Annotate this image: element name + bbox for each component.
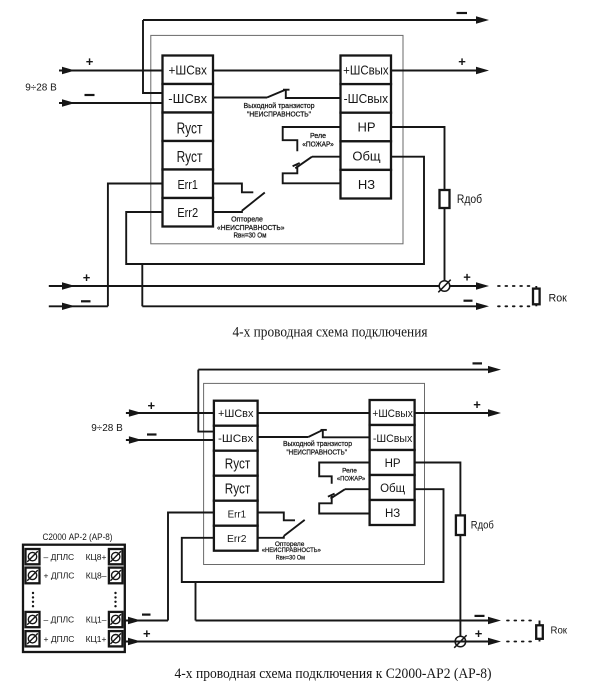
arrowhead + power input 2 <box>129 409 142 416</box>
dotted continuation minus bus <box>498 305 531 307</box>
svg-text:НЗ: НЗ <box>385 508 400 520</box>
label minus КЦ1- <box>142 613 151 615</box>
arrowhead minus lower bus <box>476 303 489 310</box>
wire: + power input <box>59 70 163 72</box>
svg-text:Rвн=30 Ом: Rвн=30 Ом <box>234 232 267 239</box>
svg-text:КЦ1+: КЦ1+ <box>86 634 107 644</box>
arrowhead minus output top <box>476 16 489 23</box>
АР2 terminal КЦ1- row3 <box>86 612 123 627</box>
relay ПОЖАР 2: НР contact path <box>319 463 369 484</box>
svg-text:Реле: Реле <box>342 468 357 475</box>
АР2 terminal КЦ8- row2 <box>86 568 123 584</box>
label minus output right 2 <box>475 615 485 617</box>
device inner boundary (thin rectangle) <box>151 35 403 243</box>
svg-text:+: + <box>473 397 481 412</box>
wire: minus lower bus <box>142 305 482 307</box>
opto relay 2: Err2 wire <box>258 536 284 538</box>
АР2 terminal -ДПЛС row1 <box>26 549 75 564</box>
transistor switch tick <box>283 89 290 91</box>
svg-text:– ДПЛС: – ДПЛС <box>44 615 75 625</box>
svg-text:«ПОЖАР»: «ПОЖАР» <box>302 142 334 149</box>
svg-text:Rуст: Rуст <box>177 120 203 137</box>
svg-text:Rдоб: Rдоб <box>457 194 483 206</box>
svg-text:+: + <box>83 270 91 285</box>
АР2 terminal +ДПЛС row4 <box>26 631 75 646</box>
svg-text:Выходной транзистор: Выходной транзистор <box>283 440 352 448</box>
svg-text:+ ДПЛС: + ДПЛС <box>44 571 75 581</box>
svg-text:4-х проводная схема подключени: 4-х проводная схема подключения к С2000-… <box>175 666 492 682</box>
arrowhead + lower bus right <box>476 282 489 289</box>
wire: minus output top line 2 <box>198 369 494 371</box>
resistor Rок 2 <box>539 621 541 626</box>
svg-text:-ШСвх: -ШСвх <box>168 91 207 106</box>
relay ПОЖАР: blade from Общ <box>295 157 312 169</box>
relay ПОЖАР 2: НЗ contact path <box>319 496 369 514</box>
svg-text:+: + <box>475 626 483 641</box>
arrowhead + power input <box>62 67 75 74</box>
wire: Err1 left to minus input riser <box>108 184 163 307</box>
transistor switch НЕИСПРАВНОСТЬ: left wire <box>213 97 267 99</box>
relay ПОЖАР: blade tick <box>293 163 300 166</box>
svg-text:Реле: Реле <box>310 133 326 140</box>
relay ПОЖАР: НЗ contact path <box>283 165 341 183</box>
wire: + power input 2 <box>126 412 214 414</box>
svg-text:Rуст: Rуст <box>225 481 251 497</box>
dotted continuation + 2 <box>507 641 534 643</box>
transistor switch 2 blade <box>308 430 322 437</box>
opto relay 2: blade <box>284 520 305 536</box>
opto relay 2: Err1 fixed contact path <box>258 513 295 521</box>
wire: Err2 to Общ link 2 <box>182 489 444 582</box>
wire: minus lower-left input <box>49 305 108 307</box>
svg-text:-ШСвых: -ШСвых <box>344 92 389 106</box>
svg-text:Rок: Rок <box>551 625 568 637</box>
svg-text:+: + <box>463 270 471 285</box>
resistor Rдоб <box>440 190 450 208</box>
АР2 terminal КЦ1+ row4 <box>86 631 123 646</box>
svg-text:НЗ: НЗ <box>358 177 375 192</box>
svg-text:КЦ8–: КЦ8– <box>86 571 107 581</box>
transistor switch 2 right drop and wire <box>323 430 370 437</box>
wire: +ШСвых output right <box>391 70 482 72</box>
svg-text:+: + <box>148 398 156 413</box>
svg-text:НР: НР <box>357 120 375 135</box>
svg-text:-ШСвх: -ШСвх <box>218 433 254 445</box>
relay ПОЖАР 2: Общ wire <box>345 488 370 490</box>
svg-text:КЦ1–: КЦ1– <box>86 615 107 625</box>
wire: minus riser from -ШСвх to top line <box>143 20 163 93</box>
svg-text:Err1: Err1 <box>177 177 198 192</box>
svg-text:"НЕИСПРАВНОСТЬ": "НЕИСПРАВНОСТЬ" <box>286 449 347 456</box>
svg-text:Err2: Err2 <box>177 205 198 220</box>
block АР2 outline <box>23 545 125 652</box>
opto relay: blade <box>242 193 265 211</box>
terminal block: right (output) <box>341 56 392 199</box>
arrowhead minus power input <box>62 99 75 106</box>
arrowhead minus lower-left <box>62 303 75 310</box>
svg-text:Rуст: Rуст <box>225 456 251 472</box>
wire: minus output line 2 <box>196 620 495 622</box>
junction circle-slash on + bus <box>439 281 450 292</box>
wire: minus power input 2 <box>126 439 214 441</box>
opto relay: Err2 wire <box>213 211 242 212</box>
terminal block: left 2 (input) <box>214 401 258 551</box>
wire: minus power input <box>59 102 163 104</box>
relay ПОЖАР 2: blade tick <box>328 494 335 497</box>
wire: + lower bus <box>49 285 482 287</box>
svg-text:«НЕИСПРАВНОСТЬ»: «НЕИСПРАВНОСТЬ» <box>217 225 285 232</box>
arrowhead minus output 2 <box>488 617 501 624</box>
svg-text:С2000 АР-2 (АР-8): С2000 АР-2 (АР-8) <box>43 532 113 542</box>
svg-text:-ШСвых: -ШСвых <box>373 433 413 445</box>
svg-text:+ШСвых: +ШСвых <box>343 64 389 78</box>
dotted continuation + bus <box>498 285 531 287</box>
АР2 terminal КЦ8+ row1 <box>86 549 123 564</box>
arrowhead +ШСвых output <box>476 67 489 74</box>
АР2 terminal -ДПЛС row3 <box>26 612 75 627</box>
resistor Rок <box>535 286 537 289</box>
svg-text:«ПОЖАР»: «ПОЖАР» <box>337 476 366 483</box>
arrowhead minus power input 2 <box>129 436 142 443</box>
svg-text:Err2: Err2 <box>227 533 247 545</box>
svg-text:Rвн=30 Ом: Rвн=30 Ом <box>276 555 306 562</box>
transistor switch 2: left wire <box>258 436 309 438</box>
svg-text:КЦ8+: КЦ8+ <box>86 552 107 562</box>
wire: +ШСвх to +ШСвых internal link 2 <box>258 412 370 414</box>
arrowhead КЦ1- line <box>128 617 141 624</box>
svg-text:"НЕИСПРАВНОСТЬ": "НЕИСПРАВНОСТЬ" <box>247 111 311 118</box>
label minus top 2 <box>473 362 483 364</box>
transistor switch right drop and wire <box>286 90 341 98</box>
arrowhead КЦ1+ near АР2 <box>128 638 141 645</box>
svg-text:+: + <box>86 54 94 69</box>
label minus lower bus right <box>464 300 473 302</box>
arrowhead + output right 2 <box>488 638 501 645</box>
resistor Rдоб 2 <box>456 515 465 535</box>
arrowhead minus output top 2 <box>488 366 501 373</box>
device inner boundary 2 (thin rectangle) <box>204 383 425 564</box>
wire: КЦ1- line from АР2 <box>123 620 169 622</box>
relay ПОЖАР: Общ wire <box>312 156 341 158</box>
svg-text:Rок: Rок <box>549 293 567 305</box>
label minus power input 2 <box>147 433 157 435</box>
svg-text:НР: НР <box>385 458 401 470</box>
label minus lower-left <box>81 300 91 302</box>
svg-text:+ШСвх: +ШСвх <box>218 408 254 420</box>
svg-text:Общ: Общ <box>352 148 381 163</box>
svg-text:Общ: Общ <box>380 483 406 495</box>
svg-text:Оптореле: Оптореле <box>231 216 263 223</box>
wire: НР to Rдоб 2 <box>415 463 461 516</box>
svg-text:+ШСвых: +ШСвых <box>372 408 413 420</box>
svg-text:«НЕИСПРАВНОСТЬ»: «НЕИСПРАВНОСТЬ» <box>262 547 321 554</box>
svg-text:4-х проводная схема подключени: 4-х проводная схема подключения <box>233 325 428 341</box>
relay ПОЖАР 2: blade <box>331 489 346 498</box>
relay ПОЖАР: НР contact path <box>283 127 341 151</box>
wire: Err2 to Общ link <box>126 157 424 264</box>
wire: Rдоб to junction <box>444 208 446 286</box>
terminal block: left (input) <box>163 56 214 227</box>
terminal block: right 2 (output) <box>370 400 415 525</box>
wire: Rдоб 2 to junction <box>459 535 461 642</box>
opto relay: Err1 fixed contact path <box>213 184 253 193</box>
svg-text:+ ДПЛС: + ДПЛС <box>44 634 75 644</box>
wire: Err1 left to КЦ1- riser 2 <box>168 513 214 621</box>
wire: +ШСвх to +ШСвых internal link <box>213 70 341 72</box>
dotted continuation minus 2 <box>507 620 534 622</box>
svg-text:+: + <box>143 626 151 641</box>
wire: minus riser 2 <box>198 370 214 432</box>
wire: minus output top line <box>143 19 482 21</box>
wire: +ШСвых output right 2 <box>415 412 494 414</box>
svg-text:9÷28 В: 9÷28 В <box>91 423 123 434</box>
svg-text:Err1: Err1 <box>228 508 247 520</box>
svg-text:+ШСвх: +ШСвх <box>168 63 207 78</box>
svg-text:– ДПЛС: – ДПЛС <box>44 552 75 562</box>
label minus (power input) <box>85 94 95 96</box>
svg-text:Выходной транзистор: Выходной транзистор <box>244 102 315 110</box>
svg-text:+: + <box>458 54 466 69</box>
wire: КЦ1+ line to + output <box>123 641 495 643</box>
svg-text:Rдоб: Rдоб <box>471 520 494 532</box>
transistor switch 2 tick <box>321 429 327 431</box>
label minus (top right) <box>457 12 468 14</box>
АР2 vertical dots right <box>114 592 116 608</box>
wire: link branch to minus bus <box>141 264 143 306</box>
arrowhead +ШСвых output 2 <box>488 409 501 416</box>
junction circle-slash on + line 2 <box>455 636 466 647</box>
АР2 vertical dots left <box>32 592 34 608</box>
transistor switch blade <box>267 90 285 98</box>
АР2 terminal +ДПЛС row2 <box>26 568 75 584</box>
wire: НР to Rдоб <box>391 127 445 190</box>
arrowhead + lower bus left <box>62 282 75 289</box>
svg-text:Rуст: Rуст <box>177 149 203 166</box>
wire: link branch to minus out 2 <box>195 582 197 621</box>
svg-text:9÷28 В: 9÷28 В <box>25 83 57 94</box>
